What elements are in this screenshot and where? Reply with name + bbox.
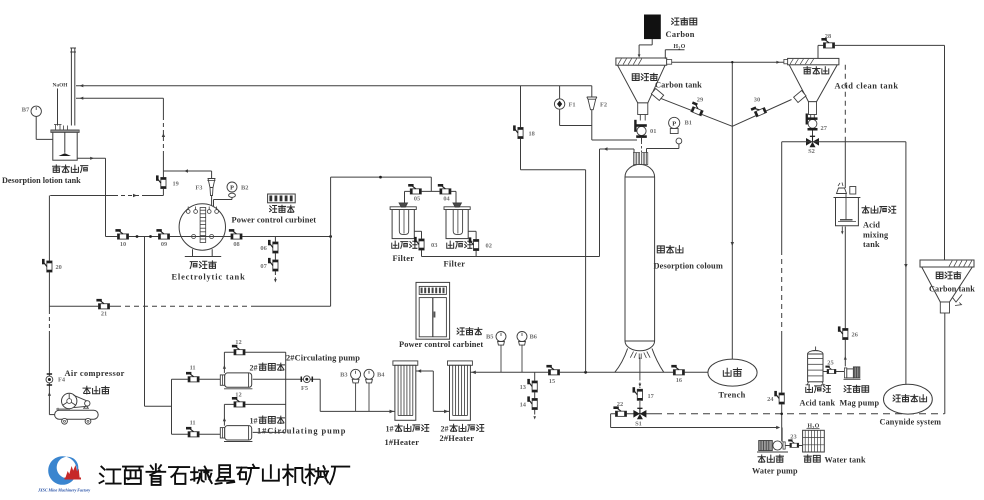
svg-text:10: 10 — [120, 241, 126, 248]
svg-text:07: 07 — [260, 263, 267, 270]
svg-text:Desorption coloum: Desorption coloum — [654, 262, 723, 271]
flow indicator F1 — [554, 99, 575, 109]
svg-text:Water pump: Water pump — [752, 467, 798, 476]
label 1#电加热器 — [386, 424, 429, 433]
valve 12 (2#) — [232, 345, 245, 355]
wire NaOH line to column area — [76, 84, 592, 87]
valve 07 — [268, 258, 278, 271]
svg-text:22: 22 — [617, 401, 623, 408]
svg-text:01: 01 — [650, 128, 656, 135]
label 炭储槽 (bottom right) — [936, 272, 961, 279]
svg-text:20: 20 — [56, 264, 62, 271]
valve 11 (1#) — [186, 427, 199, 437]
air compressor — [55, 393, 99, 424]
wire mag pump return riser — [844, 65, 846, 188]
wire branch to F1 — [559, 86, 561, 99]
svg-text:B2: B2 — [241, 185, 248, 192]
loaded carbon block — [644, 15, 661, 40]
svg-text:F2: F2 — [600, 102, 607, 109]
wire carbon tank drop — [944, 313, 946, 414]
wire F2 outlet to column — [592, 110, 637, 140]
svg-text:Acid: Acid — [863, 221, 880, 230]
wire filter 1 outlet — [414, 231, 421, 256]
wire trench riser — [731, 62, 734, 359]
wire pump 1 suction branch — [172, 433, 221, 435]
circulating pump 1# — [220, 426, 252, 442]
wire gauge B7 impulse line — [36, 117, 52, 140]
svg-text:19: 19 — [173, 181, 179, 188]
svg-text:13: 13 — [520, 384, 526, 391]
valve 27 — [806, 114, 828, 133]
water tank — [803, 430, 825, 452]
label 过滤器 (filter 2) — [447, 241, 472, 248]
wire heater2 outlet main line — [470, 371, 708, 375]
wire branch to F2 — [591, 86, 593, 97]
wire acid header left drop to water pump — [780, 142, 783, 441]
valve F4 — [46, 374, 66, 385]
svg-text:16: 16 — [676, 377, 682, 384]
label H2O (water tank) — [807, 424, 820, 431]
desorption column vessel — [625, 153, 655, 351]
label 解吸液槽 — [53, 165, 88, 173]
canynide system — [884, 384, 933, 414]
wire lotion tank outlet — [77, 157, 105, 237]
filter vessel 1 — [390, 203, 416, 239]
valve 16 — [671, 365, 684, 384]
wire pump suction from electrolyte line — [145, 237, 172, 407]
gauge B4 — [364, 369, 385, 411]
svg-text:18: 18 — [529, 131, 535, 138]
wire acid tank diagonal to trench riser — [732, 100, 791, 127]
column bottom skirt — [615, 349, 664, 373]
wire pump suction manifold — [171, 379, 173, 434]
valve 23 — [788, 439, 798, 447]
valve 09 — [156, 229, 169, 248]
svg-text:B1: B1 — [685, 120, 692, 127]
injector F3 — [195, 179, 215, 196]
acid mixing tank — [834, 183, 861, 226]
wire pump2 discharge riser — [223, 352, 286, 373]
svg-text:11: 11 — [190, 365, 196, 372]
sight funnel F2 — [587, 97, 607, 110]
wire valve 19 outlet down — [162, 171, 164, 196]
circulating pump 2# — [220, 373, 252, 389]
label 水箱 — [804, 455, 820, 462]
label 2#电加热器 — [441, 424, 484, 433]
svg-text:08: 08 — [233, 241, 239, 248]
svg-text:Filter: Filter — [444, 259, 466, 268]
wire NaOH return line — [76, 97, 163, 100]
wire 27 to S2 — [812, 131, 814, 138]
label 储酸槽 — [806, 385, 831, 392]
svg-text:04: 04 — [443, 196, 450, 203]
svg-text:26: 26 — [852, 332, 859, 339]
valve 05 — [408, 184, 421, 203]
wire drain header y306 — [49, 305, 330, 307]
valve 15 — [546, 365, 559, 385]
valve 18 — [513, 125, 535, 138]
svg-text:Power control carbinet: Power control carbinet — [399, 340, 483, 349]
label 空压机 — [83, 386, 109, 394]
svg-text:F1: F1 — [569, 102, 576, 109]
valve 01 (column feed) — [634, 120, 656, 138]
wire filter 2 outlet — [468, 231, 476, 256]
valve 19 — [156, 175, 179, 188]
wire NaOH feed line into tank — [57, 89, 59, 126]
wire filter feed header — [331, 176, 432, 192]
label 1#循环泵 — [250, 416, 285, 425]
valve 25 — [825, 366, 835, 374]
svg-text:Air compressor: Air compressor — [65, 369, 125, 378]
acid storage tank — [806, 347, 826, 385]
valve 26 — [838, 326, 848, 339]
svg-text:15: 15 — [549, 378, 555, 385]
valve 03 — [414, 237, 424, 250]
wire column top to filtrate header — [600, 147, 635, 155]
svg-text:1#Circulating pump: 1#Circulating pump — [257, 427, 346, 436]
svg-text:B3: B3 — [340, 372, 347, 379]
valve 06 — [268, 240, 278, 253]
svg-text:Acid tank: Acid tank — [800, 399, 836, 408]
svg-text:B4: B4 — [377, 372, 385, 379]
svg-text:17: 17 — [648, 393, 654, 400]
svg-text:Carbon tank: Carbon tank — [929, 285, 975, 294]
wire line to F3 injector — [163, 169, 211, 178]
wire 13/14 drain stub — [533, 372, 536, 419]
wire NaOH standpipe (double line) — [70, 48, 76, 126]
valve 20 — [42, 259, 62, 272]
svg-text:B7: B7 — [22, 107, 30, 114]
wire carbon tank diagonal to trench riser — [661, 98, 733, 126]
svg-text:2#Heater: 2#Heater — [440, 434, 475, 443]
wire filter inlet header — [405, 191, 457, 203]
valve 02 — [469, 237, 479, 250]
label 过滤器 (filter 1) — [392, 241, 417, 248]
valve 22 — [613, 406, 626, 416]
wire drain stub 06/07 — [274, 237, 277, 283]
gauge B6 — [517, 332, 538, 373]
svg-text:12: 12 — [235, 339, 241, 346]
wire riser to valve 19 — [162, 98, 165, 171]
gauge B3 — [340, 369, 360, 411]
desorption lotion tank — [51, 125, 79, 161]
label 电解槽 — [190, 261, 216, 269]
wire electrolyte main line — [106, 235, 333, 238]
wire acid header right drop to canynide — [904, 142, 907, 385]
gauge B7 — [22, 106, 42, 116]
svg-text:Power control curbinet: Power control curbinet — [232, 216, 317, 225]
svg-text:Filter: Filter — [393, 254, 415, 263]
wire riser to filter feed header — [330, 177, 332, 306]
wire branch to valve 18 — [520, 86, 522, 170]
wire left header down to air compressor — [48, 196, 55, 415]
svg-text:S1: S1 — [635, 421, 642, 428]
svg-text:Carbon tank: Carbon tank — [655, 81, 702, 90]
wire carbon feed chute — [638, 39, 653, 58]
svg-text:2#Circulating pump: 2#Circulating pump — [286, 354, 360, 363]
valve 17 — [633, 387, 654, 400]
label 酸制备槽 — [862, 206, 896, 213]
svg-text:P: P — [230, 185, 234, 192]
svg-text:O: O — [681, 44, 686, 50]
wire acid header y=141.8 — [782, 141, 906, 143]
wire bypass loop to water pump — [611, 414, 781, 429]
svg-text:12: 12 — [235, 392, 241, 399]
gauge B2 — [227, 182, 248, 197]
svg-text:Electrolytic tank: Electrolytic tank — [172, 273, 246, 282]
wire heater1 inlet — [320, 410, 395, 414]
valve 29 — [689, 101, 705, 115]
svg-text:24: 24 — [767, 396, 774, 403]
svg-text:1#: 1# — [250, 417, 258, 426]
wire H2O wash line — [665, 50, 784, 64]
svg-text:Acid clean tank: Acid clean tank — [835, 82, 899, 91]
wire acid make-up down to mag pump — [841, 227, 847, 367]
wire valve01 to column — [641, 138, 643, 152]
svg-text:1#: 1# — [386, 425, 394, 434]
svg-text:09: 09 — [161, 241, 167, 248]
svg-text:Trench: Trench — [719, 391, 746, 400]
svg-text:B6: B6 — [530, 334, 538, 341]
power control cabinet — [416, 282, 450, 339]
valve 11 (2#) — [186, 372, 199, 382]
svg-text:06: 06 — [260, 245, 267, 252]
valve S2 (3-way) — [806, 136, 819, 155]
valve 30 — [751, 103, 767, 117]
factory logo — [37, 456, 90, 492]
valve 12 (1#) — [232, 397, 245, 407]
wire B1 impulse — [647, 144, 679, 156]
wire acid spout — [811, 115, 815, 119]
wire water pump discharge riser — [781, 428, 783, 442]
wire acid tank to mag pump — [823, 371, 844, 373]
valve 14 — [527, 396, 537, 409]
valve S1 (3-way) — [633, 408, 646, 427]
svg-text:B5: B5 — [486, 334, 493, 341]
svg-text:mixing: mixing — [863, 231, 889, 240]
gauge B5 — [486, 332, 506, 373]
wire F3 into tank — [211, 196, 213, 207]
valve 28 — [821, 38, 834, 48]
svg-text:03: 03 — [431, 242, 437, 249]
water pump — [757, 441, 788, 453]
svg-text:14: 14 — [520, 402, 527, 409]
label 磁力泵 — [844, 385, 869, 392]
svg-text:Canynide system: Canynide system — [880, 418, 942, 427]
wire header to F5 and heater — [286, 379, 321, 411]
svg-text:28: 28 — [825, 33, 831, 40]
svg-text:P: P — [672, 121, 676, 128]
svg-text:29: 29 — [697, 97, 703, 104]
svg-text:NaOH: NaOH — [53, 83, 69, 89]
mag pump — [844, 367, 861, 379]
valve 21 — [96, 299, 109, 318]
label 2#循环泵 — [250, 363, 285, 372]
valve 24 — [774, 391, 784, 404]
svg-text:S2: S2 — [808, 148, 815, 155]
heater 1 vessel — [393, 361, 418, 420]
svg-text:05: 05 — [414, 196, 420, 203]
valve 13 — [527, 379, 537, 392]
wire return line to air/drain header — [50, 194, 163, 197]
svg-text:tank: tank — [863, 240, 880, 249]
trench sump — [708, 359, 757, 386]
wire F1 outlet — [560, 110, 592, 126]
svg-text:11: 11 — [190, 420, 196, 427]
label H2O (top) — [674, 44, 686, 51]
carbon tank funnel — [616, 58, 672, 121]
label 酸洗槽 — [804, 67, 829, 74]
label 整流柜 — [270, 205, 295, 212]
wire B2 impulse — [214, 197, 233, 206]
valve F5 — [301, 376, 312, 392]
wire pump1 side outlet — [253, 431, 286, 433]
wire pump 2 suction branch — [172, 378, 221, 380]
svg-text:Desorption lotion tank: Desorption lotion tank — [2, 176, 81, 185]
wire pump discharge header riser — [285, 352, 287, 432]
valve 08 — [229, 229, 242, 248]
valve 10 — [115, 229, 128, 248]
svg-text:1#Heater: 1#Heater — [385, 438, 420, 447]
acid clean tank funnel — [784, 58, 839, 114]
label 解吸柱 — [657, 246, 683, 254]
valve 04 — [438, 184, 451, 203]
label 清水泵 — [758, 455, 783, 462]
rectifier cabinet — [268, 194, 296, 203]
svg-text:02: 02 — [486, 243, 492, 250]
wire water pump suction — [785, 445, 802, 447]
heater 2 vessel — [448, 361, 473, 420]
svg-text:F3: F3 — [195, 185, 202, 192]
wire column drain to S1 — [639, 372, 642, 414]
carbon tank funnel (bottom right) — [920, 260, 974, 313]
wire valve 28 overflow line — [818, 45, 945, 260]
filter vessel 2 — [444, 203, 470, 239]
wire pump2 side outlet — [253, 378, 286, 380]
label 载金炭 — [672, 18, 697, 25]
label 控制柜 — [457, 328, 482, 335]
svg-text:JXSC Mine Machinery Factory: JXSC Mine Machinery Factory — [37, 488, 90, 493]
svg-text:Water tank: Water tank — [825, 456, 866, 465]
svg-text:2#: 2# — [250, 364, 258, 373]
wire heater1 to heater2 — [416, 369, 450, 413]
gauge B1 — [669, 117, 692, 144]
svg-text:25: 25 — [827, 360, 833, 367]
svg-text:F5: F5 — [301, 385, 308, 392]
svg-text:2#: 2# — [441, 425, 449, 434]
wire filtrate header to column — [422, 149, 600, 257]
svg-text:27: 27 — [821, 125, 828, 132]
wire S1 blowdown line — [611, 413, 945, 415]
factory name title 江西省石城县矿山机械厂 — [100, 464, 350, 485]
electrolytic tank — [179, 204, 225, 257]
svg-text:21: 21 — [101, 311, 107, 318]
wire pump1 discharge riser — [223, 404, 286, 425]
svg-text:Mag pump: Mag pump — [840, 399, 880, 408]
svg-text:Carbon: Carbon — [666, 30, 695, 39]
svg-text:23: 23 — [790, 434, 796, 441]
wire valve18 line to column bottom — [521, 170, 586, 372]
label 炭储槽 (top) — [632, 73, 657, 80]
svg-text:30: 30 — [754, 97, 760, 104]
